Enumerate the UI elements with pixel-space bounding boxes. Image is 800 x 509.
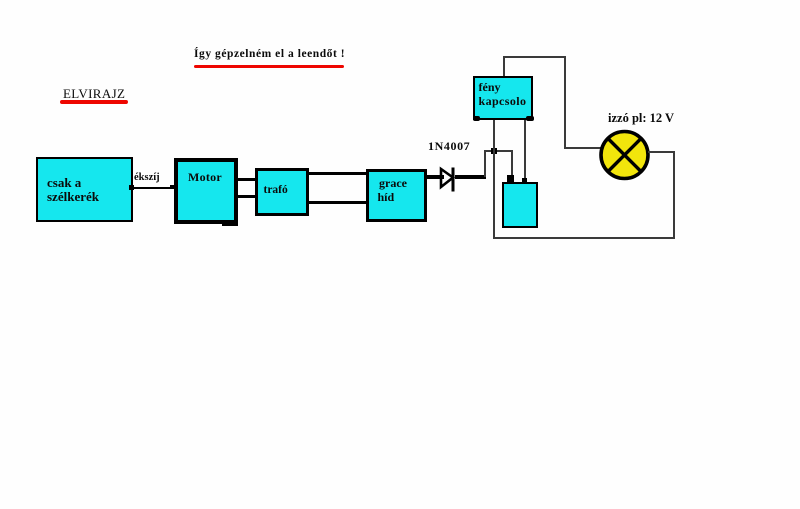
label 1N4007 [428,139,470,154]
node: belt left dot [129,185,134,190]
wire: switch top lead up [503,56,505,76]
wire: bottom return rail [493,237,675,239]
wire: trafó to graetz bridge lower [308,201,368,204]
switch bottom-right corner blob [526,116,534,121]
wire: lamp left lead [564,147,602,149]
wire: riser up from diode wire [484,150,486,177]
title: Így gépzelném el a leendőt ! [194,48,345,60]
switch bottom-left corner blob [473,116,480,121]
wire: Motor to trafó upper [236,178,256,181]
wire: top horizontal run to lamp branch [503,56,566,58]
wire: drop to battery plus terminal [511,150,513,176]
node: belt right dot [170,185,174,189]
block: transformer trafó T1 [255,168,309,216]
node: junction dot on switch wire [491,148,497,154]
label ékszíj (belt) [134,172,160,183]
wire: switch right lead down to battery minus terminal [524,120,526,178]
wire: trafó to graetz bridge upper [308,172,368,175]
red underline under title [194,65,344,68]
wire: graetz bridge to diode anode [427,175,444,179]
block: Motor M1 [174,158,238,224]
block: rectifier bridge (grace híd) [366,169,427,222]
wire: lamp right lead [648,151,675,153]
wire: Motor to trafó lower [236,195,256,198]
label izzó pl: 12 V [608,111,674,126]
wire: diode cathode to junction riser [455,175,486,179]
wire: vertical drop to lamp left lead [564,56,566,149]
wire: horizontal to battery plus drop [484,150,513,152]
red underline under ELVIRAJZ [60,100,128,104]
battery plus terminal [507,175,514,183]
wire: belt link szélkerék to Motor [131,187,174,189]
lamp L1 (izzó) [597,128,652,183]
wire: right vertical down to bottom rail [673,151,675,239]
motor bottom-right border blob [222,220,238,226]
block: wind wheel (csak a szélkerék) [36,157,133,222]
diode D1 1N4007 [436,163,462,195]
label ELVIRAJZ [63,86,125,102]
wire: switch left lead down through junction to bottom rail [493,120,495,239]
battery B1 (accumulator) [502,182,538,228]
battery minus terminal [522,178,527,183]
block: light switch (fény kapcsoló) [473,76,533,120]
